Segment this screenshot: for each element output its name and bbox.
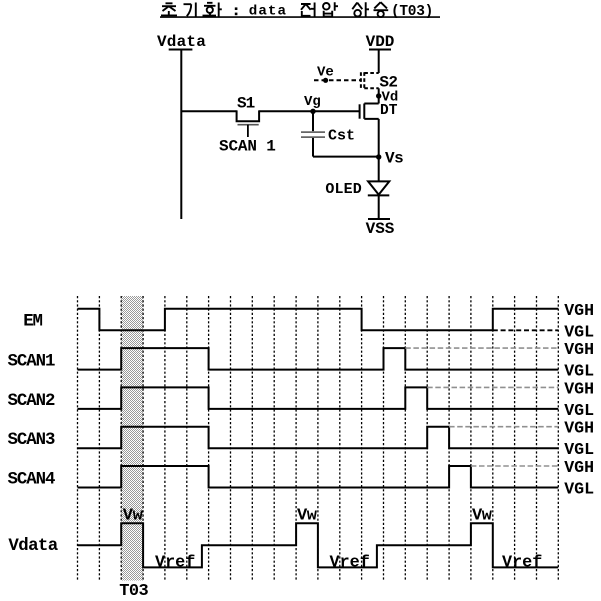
svg-text:SCAN4: SCAN4	[8, 470, 55, 489]
svg-text:Vref: Vref	[330, 554, 370, 573]
timing grid dashed vertical lines	[78, 296, 559, 581]
transistor DT	[360, 104, 379, 119]
node Ve dot	[323, 78, 328, 83]
title hangul 전	[301, 3, 315, 18]
svg-text:VSS: VSS	[366, 220, 395, 238]
title hangul 상	[352, 2, 369, 17]
svg-text:VGL: VGL	[564, 440, 594, 459]
svg-text:SCAN2: SCAN2	[8, 392, 55, 411]
wire OLED to VSS	[378, 195, 380, 219]
capacitor Cst	[301, 111, 325, 156]
svg-text:Vs: Vs	[385, 150, 403, 168]
VDD terminal bar	[369, 49, 391, 51]
Vdata terminal bar	[169, 49, 193, 51]
waveform Vdata	[78, 523, 559, 567]
EM VGL dashed reference	[493, 329, 559, 331]
svg-text:VGH: VGH	[564, 419, 594, 438]
svg-text:Cst: Cst	[328, 127, 355, 144]
SCAN3 VGH dashed reference	[449, 426, 558, 428]
svg-text:EM: EM	[23, 313, 42, 332]
svg-text:DT: DT	[380, 103, 398, 119]
waveform EM	[78, 309, 559, 331]
wire Vdata vertical	[180, 50, 182, 220]
wire Cst to Vs	[313, 156, 379, 158]
svg-text:Vd: Vd	[382, 90, 399, 106]
wire DT source to OLED (through node Vs)	[378, 119, 380, 182]
svg-text:SCAN 1: SCAN 1	[219, 138, 276, 156]
title hangul 승	[374, 2, 389, 17]
title hangul 압	[323, 2, 338, 16]
svg-text:VGL: VGL	[564, 322, 594, 341]
waveform SCAN4	[78, 466, 559, 488]
svg-text:Vw: Vw	[472, 506, 493, 525]
title hangul 화	[203, 3, 222, 18]
title colon	[235, 7, 238, 15]
svg-text:S2: S2	[379, 74, 397, 92]
title underline	[160, 16, 440, 18]
svg-text:Ve: Ve	[317, 65, 334, 81]
SCAN4 VGH dashed reference	[471, 465, 558, 467]
svg-text:T03: T03	[119, 582, 148, 601]
svg-text:Vdata: Vdata	[8, 537, 57, 556]
SCAN2 VGH dashed reference	[427, 386, 558, 388]
title hangul 기	[184, 3, 196, 18]
transistor S2 (dashed)	[361, 72, 379, 89]
wire S1 to DT gate	[259, 110, 360, 112]
node Vd	[376, 93, 381, 98]
svg-text:S1: S1	[237, 94, 255, 112]
svg-text:Vw: Vw	[297, 506, 318, 525]
diode OLED	[368, 181, 390, 195]
svg-text:Vdata: Vdata	[157, 33, 206, 51]
svg-text:VGH: VGH	[564, 379, 594, 398]
waveform SCAN3	[78, 427, 559, 449]
VSS terminal bar	[368, 218, 390, 220]
svg-text:OLED: OLED	[325, 181, 361, 198]
svg-text:Vref: Vref	[502, 554, 542, 573]
node Vs	[376, 154, 381, 159]
svg-text:Vg: Vg	[304, 94, 321, 110]
wire Ve dashed	[314, 79, 361, 81]
svg-text:VGL: VGL	[564, 362, 594, 381]
shaded band T03	[121, 296, 143, 581]
wire Vdata to S1	[181, 110, 236, 112]
svg-text:VGH: VGH	[564, 340, 594, 359]
svg-text:VGH: VGH	[564, 458, 594, 477]
node Vg	[310, 109, 315, 114]
svg-text:VGL: VGL	[564, 401, 594, 420]
svg-text:Vref: Vref	[155, 554, 195, 573]
svg-text:SCAN3: SCAN3	[8, 431, 55, 450]
svg-text:VDD: VDD	[366, 33, 395, 51]
SCAN1 VGH dashed reference	[405, 347, 558, 349]
svg-text:SCAN1: SCAN1	[8, 352, 55, 371]
svg-text:VGH: VGH	[564, 301, 594, 320]
title hangul 초	[161, 3, 177, 15]
transistor S1	[237, 110, 260, 137]
wire S2 to DT drain (through node Vd)	[378, 88, 380, 103]
waveform SCAN1	[78, 348, 559, 370]
wire VDD to S2	[378, 50, 380, 74]
svg-text:VGL: VGL	[564, 480, 594, 499]
svg-text:Vw: Vw	[123, 506, 144, 525]
waveform SCAN2	[78, 387, 559, 409]
